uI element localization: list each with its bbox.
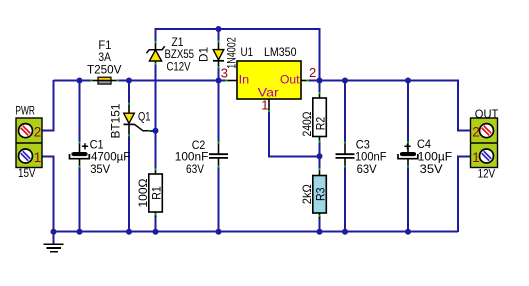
wire pwr pin1 to down riser xyxy=(41,155,55,157)
svg-text:63V: 63V xyxy=(186,162,204,176)
svg-text:OUT: OUT xyxy=(475,107,499,121)
wire d1 c2 column xyxy=(218,67,220,143)
svg-text:Q1: Q1 xyxy=(138,110,151,124)
capacitor C2 xyxy=(175,138,228,176)
wire q1 cathode xyxy=(128,135,130,232)
svg-text:12V: 12V xyxy=(478,167,496,181)
svg-text:R3: R3 xyxy=(313,187,327,201)
svg-text:1: 1 xyxy=(34,150,42,165)
svg-text:2kΩ: 2kΩ xyxy=(300,184,314,204)
thyristor Q1 xyxy=(109,103,151,138)
node gnd r1 xyxy=(153,229,159,235)
wire main input row right xyxy=(118,80,227,82)
svg-text:2: 2 xyxy=(472,125,480,140)
node gnd c2 xyxy=(216,229,222,235)
svg-text:Var: Var xyxy=(258,85,279,99)
diode D1 xyxy=(197,37,239,69)
capacitor C3 xyxy=(336,137,387,176)
svg-text:In: In xyxy=(239,73,250,87)
node in row c1 xyxy=(77,78,83,84)
node in row d1 xyxy=(216,78,222,84)
wire d1 top xyxy=(218,28,220,42)
wire c4 top xyxy=(407,80,409,143)
connector PWR xyxy=(15,104,42,180)
svg-text:100Ω: 100Ω xyxy=(136,178,150,207)
wire c2 bottom xyxy=(218,167,220,233)
regulator U1 LM350 xyxy=(221,45,316,112)
svg-text:63V: 63V xyxy=(357,162,377,176)
resistor R3 xyxy=(300,169,328,219)
wire c1 top xyxy=(79,80,81,143)
svg-text:Out: Out xyxy=(280,73,300,87)
wire right gnd riser xyxy=(458,156,471,232)
capacitor C4 xyxy=(398,137,452,176)
wire r1 bottom xyxy=(155,215,157,232)
terminal 1 screw xyxy=(19,149,33,163)
fuse F1 xyxy=(87,38,122,84)
svg-text:3: 3 xyxy=(221,66,228,81)
wire z1 to r1 column xyxy=(155,64,157,170)
wire q1 gate to node xyxy=(149,130,156,132)
node gnd q1 xyxy=(126,229,132,235)
svg-text:1: 1 xyxy=(472,150,480,165)
wire pwr pin2 to riser xyxy=(41,130,55,132)
svg-text:2: 2 xyxy=(309,65,316,80)
node out row c3 xyxy=(342,78,348,84)
node gnd c1 xyxy=(77,229,83,235)
connector OUT xyxy=(471,107,499,181)
svg-text:D1: D1 xyxy=(197,47,211,62)
capacitor C1 xyxy=(70,137,131,176)
svg-text:240Ω: 240Ω xyxy=(300,111,314,136)
svg-text:PWR: PWR xyxy=(15,104,35,118)
svg-text:2: 2 xyxy=(34,125,42,140)
wire out row xyxy=(308,80,459,82)
svg-text:LM350: LM350 xyxy=(264,45,297,59)
wire main input row left xyxy=(54,80,92,82)
wire c3 bottom xyxy=(344,167,346,233)
wire c1 bottom xyxy=(79,167,81,233)
node gate z1 xyxy=(153,128,159,134)
resistor R2 xyxy=(300,93,328,142)
node out row r2 xyxy=(317,78,323,84)
node var r2 r3 xyxy=(317,153,323,159)
node out row c4 xyxy=(405,78,411,84)
wire c4 bottom xyxy=(407,167,409,233)
wire left riser up xyxy=(53,80,55,131)
wire r2 bottom to var node xyxy=(319,142,321,158)
svg-text:R1: R1 xyxy=(149,186,163,200)
terminal 2 screw xyxy=(19,124,33,138)
svg-text:1: 1 xyxy=(261,97,268,112)
pin connection points xyxy=(79,41,410,217)
svg-text:15V: 15V xyxy=(18,166,36,180)
svg-text:BT151: BT151 xyxy=(109,103,123,138)
wire r3 top xyxy=(319,156,321,169)
wire top output net xyxy=(156,28,320,30)
wire r3 bottom xyxy=(319,217,321,233)
terminal 2 screw xyxy=(480,124,494,138)
wire r2 top xyxy=(319,80,321,94)
svg-text:T250V: T250V xyxy=(87,62,122,76)
svg-text:35V: 35V xyxy=(420,162,443,176)
node gnd c4 xyxy=(405,229,411,235)
wire out riser to terminal xyxy=(458,80,471,131)
wire c3 top xyxy=(344,80,346,143)
svg-text:35V: 35V xyxy=(90,162,110,176)
node top d1 xyxy=(216,26,222,32)
svg-text:U1: U1 xyxy=(241,45,254,59)
svg-text:C12V: C12V xyxy=(167,59,191,73)
node gnd r3 xyxy=(317,229,323,235)
wire var pin down and right xyxy=(269,111,320,156)
terminal 1 screw xyxy=(480,149,494,163)
resistor R1 xyxy=(136,169,164,217)
ground xyxy=(44,232,64,252)
node gnd left xyxy=(51,229,57,235)
wire q1 anode xyxy=(128,80,130,104)
node in row q1 xyxy=(126,78,132,84)
zener diode Z1 xyxy=(147,35,195,74)
wire left riser down xyxy=(53,156,55,233)
wire ground row xyxy=(54,231,459,233)
svg-text:R2: R2 xyxy=(313,116,327,130)
wire z1 top xyxy=(155,28,157,42)
wire top to out pin column xyxy=(319,28,321,81)
node gnd c3 xyxy=(342,229,348,235)
